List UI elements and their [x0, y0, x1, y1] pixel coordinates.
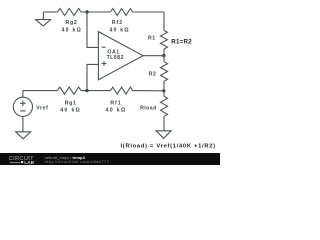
svg-text:Vref: Vref [36, 106, 48, 112]
svg-text:Rf2: Rf2 [112, 20, 123, 26]
svg-text:Rg1: Rg1 [65, 100, 77, 106]
svg-text:http://circuitlab.com/c6ss777: http://circuitlab.com/c6ss777 [45, 159, 110, 164]
svg-text:Rg2: Rg2 [66, 20, 78, 26]
svg-text:40 kΩ: 40 kΩ [109, 28, 130, 34]
svg-text:R2: R2 [149, 72, 157, 78]
svg-text:R1=R2: R1=R2 [171, 38, 192, 45]
svg-text:40 kΩ: 40 kΩ [105, 108, 126, 114]
svg-text:LAB: LAB [24, 160, 34, 165]
svg-text:Rload: Rload [140, 106, 157, 112]
svg-text:40 kΩ: 40 kΩ [62, 28, 83, 34]
svg-text:I(Rload) = Vref(1/40K +1/R2): I(Rload) = Vref(1/40K +1/R2) [121, 144, 216, 150]
svg-text:40 kΩ: 40 kΩ [60, 108, 81, 114]
svg-text:R1: R1 [148, 35, 156, 41]
svg-text:Rf1: Rf1 [110, 100, 121, 106]
svg-text:TL082: TL082 [107, 55, 124, 61]
